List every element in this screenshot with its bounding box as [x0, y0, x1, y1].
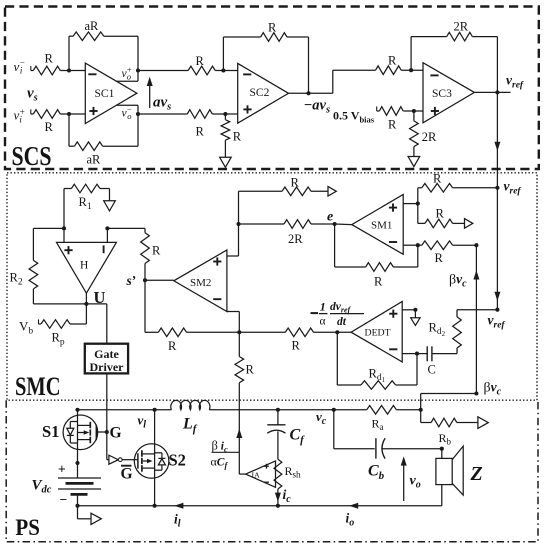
svg-text:DEDT: DEDT	[365, 328, 391, 339]
svg-text:+: +	[58, 462, 66, 477]
svg-text:SMC: SMC	[15, 371, 61, 401]
svg-text:vo: vo	[410, 474, 421, 491]
svg-text:C: C	[428, 363, 436, 377]
svg-text:H: H	[80, 259, 88, 271]
svg-text:2R: 2R	[288, 232, 303, 246]
svg-text:SM1: SM1	[371, 219, 392, 231]
svg-text:SC3: SC3	[432, 88, 452, 100]
svg-text:R: R	[233, 129, 242, 143]
svg-text:SM2: SM2	[190, 277, 211, 289]
svg-text:vref: vref	[488, 313, 506, 331]
svg-text:R: R	[388, 117, 397, 131]
svg-text:0.5 Vbias: 0.5 Vbias	[333, 109, 375, 125]
svg-text:Lf: Lf	[182, 416, 198, 436]
svg-text:Rd2: Rd2	[429, 320, 446, 338]
svg-text:βvc: βvc	[449, 271, 467, 289]
svg-text:β ic: β ic	[212, 439, 228, 455]
svg-text:Rb: Rb	[439, 431, 452, 447]
svg-text:vl: vl	[138, 413, 147, 431]
svg-text:s’: s’	[126, 273, 137, 288]
svg-text:βvc: βvc	[484, 380, 502, 398]
svg-text:R: R	[436, 206, 445, 220]
svg-text:e: e	[327, 209, 333, 224]
svg-text:R1: R1	[79, 195, 92, 212]
svg-text:IA: IA	[252, 471, 261, 480]
svg-text:v−o: v−o	[122, 104, 132, 121]
svg-text:R: R	[152, 244, 161, 258]
svg-text:Rd1: Rd1	[369, 366, 386, 384]
svg-text:Vdc: Vdc	[32, 478, 52, 496]
svg-text:R: R	[268, 20, 277, 34]
svg-text:Rsh: Rsh	[285, 464, 302, 480]
svg-text:G: G	[110, 424, 122, 441]
svg-text:R: R	[433, 172, 442, 186]
svg-text:v−i: v−i	[14, 57, 25, 75]
svg-text:R: R	[435, 251, 444, 265]
svg-text:G: G	[121, 466, 133, 483]
svg-text:ic: ic	[283, 487, 292, 505]
svg-text:R: R	[45, 52, 54, 66]
svg-text:Ra: Ra	[372, 416, 384, 432]
svg-text:v+o: v+o	[122, 65, 132, 82]
svg-text:avs: avs	[153, 95, 171, 113]
svg-text:il: il	[174, 512, 181, 530]
svg-text:dt: dt	[337, 316, 347, 328]
svg-text:Vb: Vb	[19, 319, 33, 337]
svg-text:Z: Z	[470, 463, 483, 485]
svg-text:αCf: αCf	[211, 455, 229, 471]
svg-text:SCS: SCS	[12, 141, 52, 171]
svg-text:R: R	[292, 338, 301, 352]
svg-text:1: 1	[320, 300, 326, 314]
svg-text:R: R	[196, 54, 205, 68]
svg-text:α: α	[319, 316, 325, 328]
svg-text:dvref: dvref	[330, 301, 352, 315]
svg-text:Cb: Cb	[368, 463, 385, 483]
svg-text:S1: S1	[42, 422, 59, 441]
svg-text:R: R	[388, 54, 397, 68]
svg-text:2R: 2R	[422, 130, 437, 144]
svg-text:−avs: −avs	[304, 98, 331, 116]
svg-text:Gate: Gate	[94, 347, 119, 361]
svg-text:R: R	[45, 120, 54, 134]
svg-text:SC1: SC1	[95, 88, 115, 100]
svg-text:U: U	[94, 288, 106, 307]
svg-text:aR: aR	[85, 19, 100, 33]
svg-text:io: io	[346, 511, 355, 529]
svg-text:Driver: Driver	[90, 360, 125, 374]
svg-text:vref: vref	[504, 179, 522, 197]
svg-text:R: R	[374, 274, 383, 288]
svg-text:aR: aR	[87, 153, 102, 167]
svg-text:vref: vref	[506, 73, 524, 91]
svg-text:PS: PS	[15, 515, 40, 541]
svg-text:−: −	[60, 492, 68, 507]
svg-text:SC2: SC2	[250, 87, 270, 99]
svg-text:R: R	[196, 124, 205, 138]
svg-text:Cf: Cf	[290, 426, 306, 446]
svg-text:R: R	[168, 339, 177, 353]
svg-text:R: R	[291, 176, 300, 190]
svg-text:R: R	[246, 363, 255, 377]
svg-text:2R: 2R	[454, 20, 469, 34]
svg-text:vc: vc	[316, 409, 327, 427]
svg-text:S2: S2	[169, 450, 186, 469]
svg-text:R2: R2	[10, 271, 23, 288]
svg-text:vs: vs	[27, 86, 38, 104]
svg-text:v+i: v+i	[14, 107, 25, 125]
svg-text:Rp: Rp	[52, 331, 65, 348]
